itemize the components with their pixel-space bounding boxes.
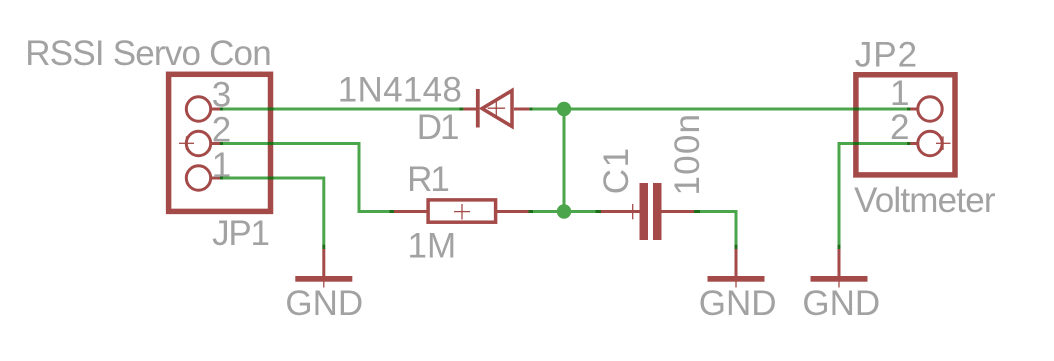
diode D1 (463, 89, 529, 128)
svg-text:100n: 100n (668, 113, 707, 196)
svg-text:D1: D1 (417, 108, 458, 147)
JP1 origin cross (179, 136, 194, 150)
svg-text:C1: C1 (597, 146, 636, 194)
svg-text:RSSI Servo Con: RSSI Servo Con (25, 34, 271, 73)
wire JP2 pin2 to GND3 (839, 144, 907, 245)
junction dot bottom (557, 204, 571, 218)
svg-text:GND: GND (802, 284, 880, 323)
connector JP2 box (856, 75, 955, 175)
wire crossing JP1 box edge row2 (268, 142, 274, 145)
svg-text:GND: GND (285, 284, 363, 323)
svg-text:JP1: JP1 (212, 214, 269, 253)
svg-text:1M: 1M (408, 227, 457, 266)
capacitor C1 (601, 183, 694, 240)
JP2 pin 2 circle (910, 131, 942, 155)
pin end JP1-3 (220, 108, 223, 111)
pin end C1 right (694, 210, 700, 213)
connector JP1 box (169, 74, 271, 211)
wire R1 to junction (533, 210, 596, 213)
junction dot top (557, 102, 571, 116)
JP2 pin 1 circle (910, 97, 942, 121)
JP1 pin 3 circle (186, 97, 220, 121)
ground GND1 (295, 244, 352, 287)
ground GND2 (708, 244, 765, 287)
JP1 pin 2 circle (186, 131, 220, 155)
pin end R1 right (529, 210, 534, 213)
wire crossing JP2 box edge row2 (853, 142, 859, 145)
resistor R1 (394, 200, 529, 222)
svg-text:R1: R1 (407, 160, 448, 199)
svg-text:2: 2 (890, 108, 909, 147)
wire JP1 pin2 to R1 (223, 144, 389, 212)
wire net N$1 pin3 to diode (223, 108, 459, 111)
pin end JP1-1 (220, 177, 223, 180)
wire crossing JP1 box edge row3 (268, 108, 274, 111)
svg-text:Voltmeter: Voltmeter (854, 181, 996, 220)
svg-text:JP2: JP2 (855, 36, 918, 75)
pin end JP2-1 (907, 108, 910, 111)
pin end R1 left (390, 210, 395, 213)
svg-text:GND: GND (699, 284, 777, 323)
JP2 origin cross (936, 136, 951, 150)
pin end JP1-2 (220, 142, 223, 145)
wire crossing JP1 box edge row1 (268, 177, 274, 180)
pin end D1 right (529, 108, 532, 111)
wire crossing JP2 box edge row1 (853, 108, 859, 111)
wire diode to JP2 pin1 (533, 108, 907, 111)
ground GND3 (811, 244, 868, 287)
wire C1 to GND2 (700, 212, 736, 245)
svg-text:1N4148: 1N4148 (338, 70, 462, 109)
pin end D1 left (460, 108, 464, 111)
wire JP1 pin1 to GND1 (223, 178, 323, 244)
wire vertical junction drop (563, 109, 566, 212)
JP1 pin 1 circle (186, 166, 220, 190)
pin end JP2-2 (907, 142, 910, 145)
pin end C1 left (596, 210, 602, 213)
